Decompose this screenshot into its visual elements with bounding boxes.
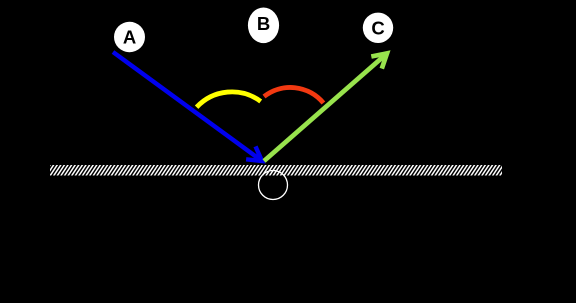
svg-text:A: A <box>123 27 136 48</box>
svg-text:C: C <box>371 17 384 38</box>
incident ray (blue) <box>113 52 262 161</box>
label A <box>114 22 145 52</box>
point-of-incidence circle <box>259 171 288 200</box>
reflected ray (green) <box>264 53 387 161</box>
angle of incidence arc (yellow) <box>197 92 261 107</box>
angle of reflection arc (red) <box>264 87 323 103</box>
mirror surface (hatched band) <box>50 165 502 176</box>
label C <box>363 13 393 43</box>
svg-text:B: B <box>257 13 270 34</box>
label B <box>248 8 279 44</box>
